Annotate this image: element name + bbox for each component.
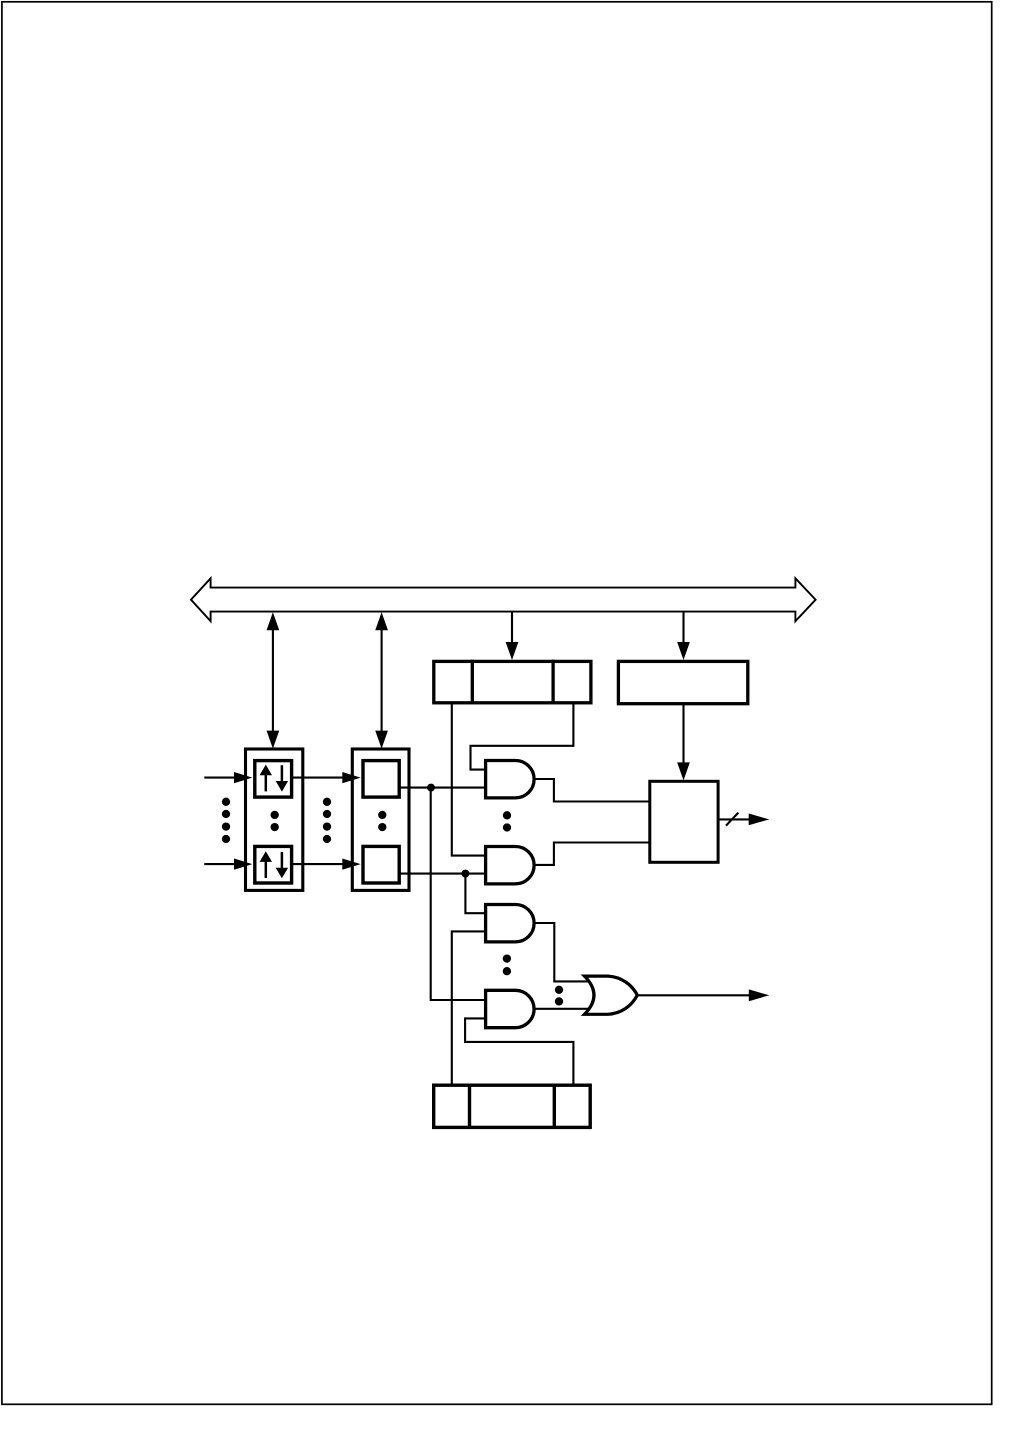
ellipsis dots inside edge-select [271,811,279,831]
wire enable-reg right cell to AND1 top input [471,703,574,770]
bidirectional arrow bus-to-edge-select block [267,612,280,748]
mask register (plain box) [618,661,747,703]
bidirectional arrow bus-to-flag block [375,612,388,748]
input arrow IRQn [204,858,252,869]
arrow bus-to-mask-register [677,612,690,660]
junction dot A [427,784,435,792]
up arrow in top cell [260,765,272,792]
input arrow IRQ0 [204,772,252,783]
arrow bus-to-enable-register [506,612,519,660]
arrow edge-select to flag bottom [292,858,361,869]
OR gate output arrow [637,989,769,1001]
priority decoder block [650,781,718,862]
edge select cell bottom [255,846,292,883]
OR gate [585,976,638,1014]
bottom register (3-cell box) [434,1084,591,1128]
ellipsis dots at OR gate inputs [555,986,563,1006]
ellipsis dots between AND1 and AND2 [503,811,511,832]
wire bottom-reg left cell to AND3 bottom input [452,931,486,1086]
arrow edge-select to flag top [292,772,361,783]
junction dot B [461,870,469,878]
edge select block (outer) [246,749,303,890]
wire dot-A down to AND4 top input [431,788,486,1000]
wire AND4 output to OR gate [534,1008,590,1010]
flag block (outer) [352,749,409,890]
ellipsis dots left of edge-select [222,798,230,844]
data bus (double-headed block arrow) [191,578,816,621]
wire enable-reg left cell to AND2 top input [452,703,486,856]
edge select cell top [255,761,292,798]
down arrow in bottom cell [276,852,288,878]
up arrow in bottom cell [260,851,272,878]
wire AND2 output to priority block [534,843,650,865]
AND gate 2 [486,847,535,884]
ellipsis dots inside flag block [378,811,386,831]
down arrow in top cell [276,765,288,791]
wire AND1 output to priority block [534,779,650,802]
wire AND3 output to OR gate [534,923,590,981]
AND gate 1 [486,761,535,798]
wire dot-B down to AND3 top input [465,874,486,914]
wire flag-top to AND1 lower input [399,787,486,789]
enable register (3-cell box) [434,660,591,703]
flag cell top [363,761,399,798]
flag cell bottom [363,846,399,883]
AND gate 4 [486,990,534,1027]
AND gate 3 [486,905,535,942]
ellipsis dots between edge-select and flag [323,798,331,844]
wire AND4 bottom input to bottom-reg right cell [465,1018,573,1086]
wire flag-bottom to AND2 lower input [399,873,486,875]
arrow mask-register to priority block [677,704,690,781]
priority output arrow with bus-width slash [718,813,769,826]
ellipsis dots between AND3 and AND4 [503,954,511,975]
